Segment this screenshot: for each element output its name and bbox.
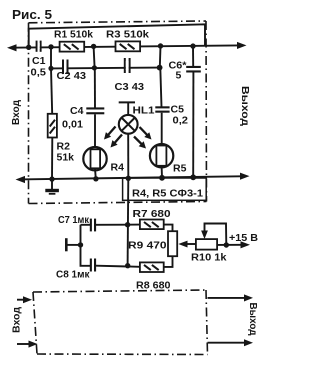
node B (R1/R3/C2/C3/C4) (91, 44, 96, 49)
node terminal junction (78, 242, 83, 247)
node: HL1 ground (126, 176, 131, 181)
wire: main top rail (11, 45, 238, 47)
wire: C5 to R5 (161, 113, 163, 143)
node row2 mid (92, 65, 97, 70)
wire: R8 to R9 bottom (164, 256, 173, 267)
svg-text:C8 1мк: C8 1мк (56, 270, 90, 281)
lower output arrow 1 (208, 297, 245, 299)
capacitor C4 0,01 (86, 107, 104, 114)
photoresistor R4 (83, 147, 106, 179)
resistor R8 680 (140, 262, 164, 272)
svg-text:C3 43: C3 43 (115, 81, 145, 93)
capacitor C7 1мк (90, 219, 96, 232)
dash-dot enclosure of oscillator block (29, 21, 207, 204)
node C7/R7 (125, 222, 130, 227)
lower output arrow 2 (208, 342, 245, 344)
node C (R3/C5 column) (158, 43, 163, 48)
svg-text:R9 470: R9 470 (128, 240, 167, 252)
svg-text:HL1: HL1 (133, 105, 155, 117)
node: bus tap left (26, 45, 31, 50)
lower input arrow 2 (17, 343, 30, 345)
arrow +15 В (241, 241, 251, 248)
capacitor C6* 5 (186, 66, 201, 73)
potentiometer R9 470 (168, 231, 177, 256)
wire: column A down to R2 (51, 68, 52, 114)
ground symbol (45, 179, 59, 194)
light arrows to R4 (104, 127, 122, 148)
svg-text:C2 43: C2 43 (57, 70, 87, 82)
resistor R1 510k (60, 42, 85, 52)
wire: HL1 column continues to RC network (127, 178, 130, 265)
arrow output right (237, 42, 247, 49)
input terminal (65, 238, 68, 251)
wire: top feedback bus (29, 24, 205, 47)
node row2 left (48, 66, 53, 71)
svg-text:51k: 51k (57, 152, 75, 164)
node D (C6 column) (190, 43, 195, 48)
svg-text:R4, R5 СФ3-1: R4, R5 СФ3-1 (132, 188, 203, 200)
lower input arrow 1 (17, 299, 25, 301)
svg-text:R1 510k: R1 510k (54, 29, 93, 41)
svg-text:R3 510k: R3 510k (106, 29, 149, 41)
capacitor C3 43 (124, 58, 131, 73)
R9 wiper arrow (186, 243, 196, 245)
capacitor C1 (36, 41, 42, 52)
node R10 out (224, 242, 229, 247)
svg-text:R5: R5 (173, 163, 187, 175)
wire: column B (node B to C4) (94, 46, 95, 68)
wire: column D through C6 (192, 46, 194, 66)
node: R2 ground (49, 176, 54, 181)
svg-text:C4: C4 (70, 105, 84, 117)
svg-text:Рис. 5: Рис. 5 (12, 8, 52, 22)
capacitor C2 43 (62, 60, 69, 75)
node: R4 ground (93, 176, 98, 181)
wire: R2 to ground rail (51, 138, 53, 180)
resistor R3 510k (116, 41, 141, 51)
svg-text:Выход: Выход (239, 86, 251, 126)
capacitor C8 1мк (90, 259, 96, 272)
node row2 right (157, 65, 163, 71)
node: R5 ground (159, 175, 165, 181)
svg-text:R8 680: R8 680 (136, 280, 171, 292)
wire: R7 to R9 top (164, 225, 173, 232)
wire: column C (node C down to C5) (159, 46, 162, 68)
svg-text:0,2: 0,2 (173, 115, 189, 127)
wire: row 2 (C2/C3 row) (51, 67, 160, 70)
svg-text:R4: R4 (111, 162, 125, 174)
wire: C4 to R4 (94, 114, 96, 146)
potentiometer R10 1k (196, 239, 217, 250)
svg-text:+15 В: +15 В (229, 232, 258, 244)
node A (C1/R1/C2/R2) (48, 44, 53, 49)
svg-text:0,01: 0,01 (62, 119, 83, 131)
wire: input terminal column (81, 225, 91, 266)
resistor R2 51k (48, 114, 57, 138)
wire: R10 right to +15 (217, 244, 241, 246)
svg-text:0,5: 0,5 (31, 67, 47, 79)
wire: C7 row (96, 224, 140, 226)
dash-dot enclosure of lower block (33, 290, 208, 355)
wire: ground rail (19, 176, 240, 179)
arrow input left (7, 44, 17, 51)
R10 wiper arrow and loop (205, 224, 227, 246)
wire: C8 row (96, 266, 140, 267)
wire: column A down (C1 node to C2 row) (50, 47, 52, 69)
svg-text:5: 5 (176, 70, 182, 82)
photoresistor R5 (150, 144, 173, 178)
arrow ground right (240, 173, 250, 180)
svg-text:Выход: Выход (247, 303, 259, 336)
node C8/R8 (125, 263, 130, 268)
svg-text:C1: C1 (32, 55, 46, 67)
arrow ground left (16, 176, 26, 183)
svg-text:Вход: Вход (10, 100, 22, 125)
svg-text:R7 680: R7 680 (133, 208, 171, 220)
svg-text:R10 1k: R10 1k (191, 252, 227, 264)
label box R4, R5 СФ3-1 (123, 178, 207, 200)
node: C6 ground (190, 174, 196, 180)
light arrows to R5 (134, 127, 152, 149)
svg-text:Вход: Вход (11, 307, 23, 333)
lamp HL1 (119, 102, 138, 178)
capacitor C5 0,2 (155, 106, 169, 112)
resistor R7 680 (140, 220, 164, 230)
